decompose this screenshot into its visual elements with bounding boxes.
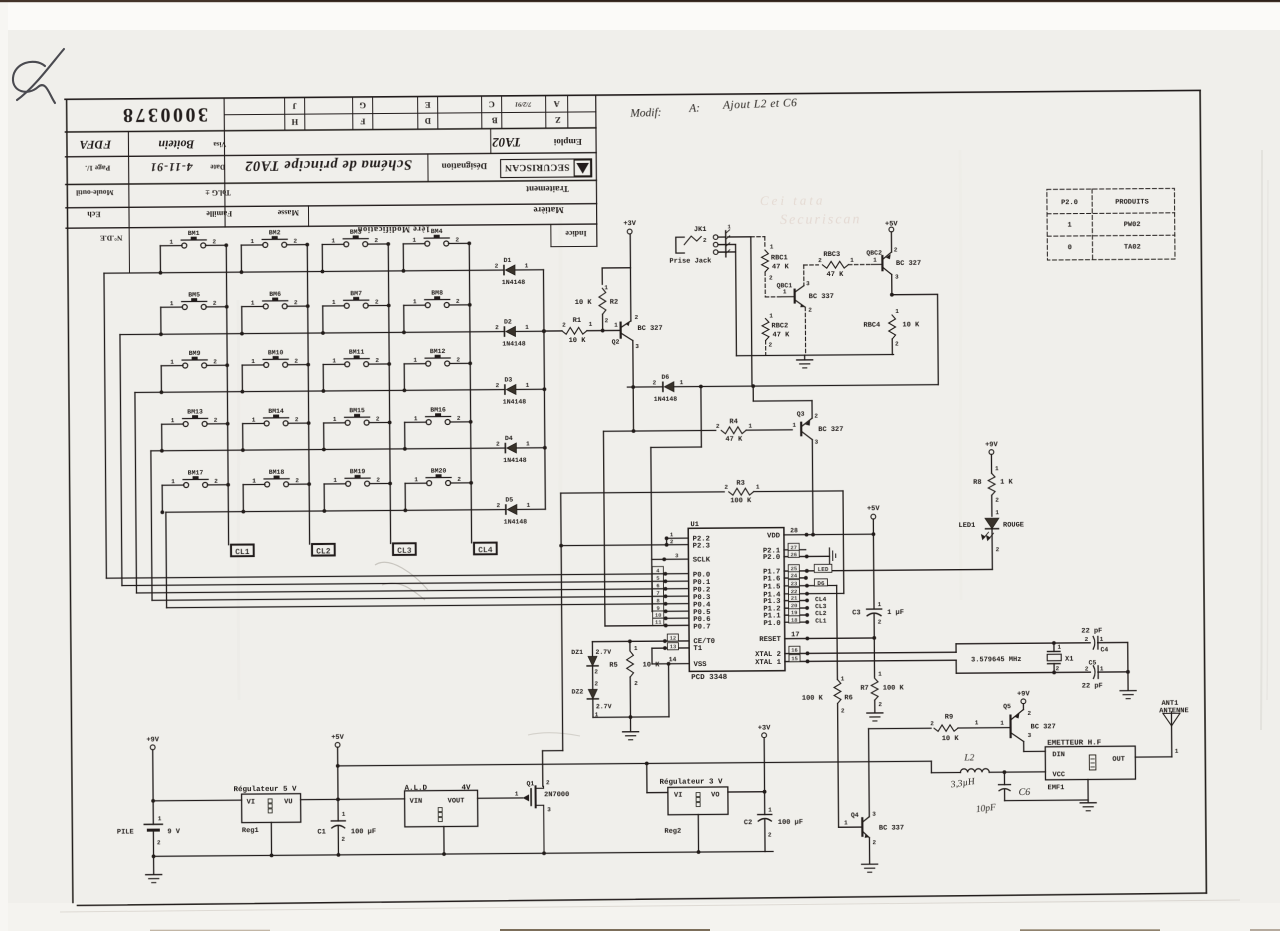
- ground symbol RBC rail: [797, 355, 813, 368]
- wire crystal caps to ground: [1126, 642, 1130, 690]
- svg-text:2N7000: 2N7000: [544, 791, 569, 799]
- svg-text:1: 1: [634, 645, 638, 652]
- svg-text:Z: Z: [555, 115, 561, 125]
- LED1 ROUGE red: [958, 509, 1024, 570]
- svg-text:2: 2: [878, 701, 882, 708]
- node CL4 label: [474, 543, 497, 556]
- svg-text:EMF1: EMF1: [1048, 784, 1065, 792]
- power +5V bottom: [331, 734, 345, 821]
- bottom ground rail: [154, 850, 774, 859]
- emitter block EMETTEUR H.F: [1045, 739, 1135, 792]
- svg-text:1N4148: 1N4148: [503, 398, 527, 405]
- svg-text:R2: R2: [610, 299, 618, 307]
- svg-text:Visa: Visa: [213, 140, 227, 148]
- svg-text:2: 2: [605, 317, 609, 324]
- svg-text:BM13: BM13: [187, 408, 203, 415]
- matrix row rail wire 5: [165, 512, 168, 607]
- wire jack tip dashed to RBC1: [728, 237, 765, 248]
- resistor R5 10K: [609, 641, 660, 717]
- wire ALD VOUT to Q1 gate: [478, 797, 523, 799]
- svg-text:100 K: 100 K: [883, 684, 905, 692]
- wire P2.2/P2.3 tie: [561, 536, 688, 547]
- svg-text:BM19: BM19: [350, 468, 366, 475]
- node label D6: [814, 579, 827, 587]
- svg-text:10: 10: [655, 612, 662, 619]
- svg-text:2: 2: [716, 423, 720, 430]
- svg-text:1: 1: [873, 257, 877, 264]
- svg-text:CL2: CL2: [316, 547, 331, 556]
- wire EMF1 ground leg: [1080, 779, 1096, 810]
- svg-text:3: 3: [1028, 732, 1032, 739]
- svg-text:2: 2: [841, 707, 845, 714]
- svg-text:1: 1: [331, 237, 335, 244]
- svg-text:Emploi: Emploi: [553, 137, 582, 147]
- svg-text:A:: A:: [688, 102, 700, 114]
- svg-text:1: 1: [333, 477, 337, 484]
- svg-text:1: 1: [995, 465, 999, 472]
- svg-text:100 µF: 100 µF: [351, 828, 376, 836]
- svg-text:2: 2: [814, 413, 818, 420]
- switch BM1: [158, 230, 228, 275]
- svg-text:3: 3: [547, 806, 551, 813]
- node CL3 label: [393, 543, 416, 556]
- svg-text:E: E: [424, 100, 430, 110]
- svg-text:VOUT: VOUT: [448, 797, 465, 805]
- svg-text:+3V: +3V: [623, 220, 636, 228]
- svg-text:2: 2: [341, 836, 345, 843]
- svg-text:P2.3: P2.3: [693, 542, 710, 550]
- svg-text:6: 6: [656, 582, 659, 589]
- svg-text:1: 1: [1068, 222, 1072, 230]
- svg-text:1: 1: [1000, 720, 1004, 727]
- resistor R7 100K: [860, 638, 905, 713]
- svg-text:11: 11: [655, 619, 662, 626]
- wire Q5 collector to DIN: [1024, 741, 1046, 751]
- svg-text:1: 1: [841, 675, 845, 682]
- svg-text:10 K: 10 K: [575, 299, 593, 307]
- svg-text:1: 1: [604, 284, 608, 291]
- zener DZ1 2.7V: [571, 642, 611, 690]
- svg-text:1: 1: [792, 422, 796, 429]
- svg-text:CL1: CL1: [235, 548, 250, 557]
- svg-text:+9V: +9V: [985, 441, 998, 449]
- svg-text:1: 1: [783, 288, 787, 295]
- svg-text:+9V: +9V: [146, 736, 159, 744]
- scanner top edge line: [0, 0, 1280, 2]
- svg-text:B: B: [492, 116, 498, 126]
- U1 pin XTAL2 stub: [785, 645, 956, 655]
- svg-text:7: 7: [656, 590, 659, 597]
- svg-text:2: 2: [157, 839, 161, 846]
- svg-text:1: 1: [252, 417, 256, 424]
- svg-text:Date: Date: [210, 163, 226, 172]
- battery PILE 9V: [117, 815, 181, 857]
- wire Q4 collector up to R9: [869, 728, 932, 816]
- capacitor C5 22pF: [1082, 659, 1104, 690]
- switch BM6: [240, 291, 310, 336]
- ground rail under U1: [593, 715, 669, 732]
- svg-text:2: 2: [670, 538, 673, 545]
- resistor R6 100K: [801, 585, 854, 827]
- svg-text:Reg1: Reg1: [242, 827, 259, 835]
- svg-text:LED: LED: [818, 566, 829, 573]
- svg-text:18: 18: [791, 617, 798, 624]
- svg-text:TA02: TA02: [1124, 243, 1141, 251]
- svg-text:47 K: 47 K: [826, 271, 844, 279]
- svg-text:D3: D3: [504, 377, 512, 384]
- U1 left pin numbers: [652, 531, 680, 663]
- svg-text:DIN: DIN: [1052, 751, 1065, 759]
- wire Reg2 VO to +3V node: [728, 790, 767, 794]
- svg-text:100 µF: 100 µF: [778, 819, 803, 827]
- wire Q4 emitter to ground: [861, 838, 877, 873]
- svg-text:2: 2: [724, 484, 728, 491]
- svg-text:1: 1: [844, 819, 848, 826]
- row bus wire row 1: [104, 270, 504, 273]
- svg-text:Q2: Q2: [612, 339, 620, 346]
- switch BM4: [401, 228, 471, 273]
- svg-text:2: 2: [894, 246, 898, 253]
- svg-text:VU: VU: [284, 798, 292, 806]
- +5V rail to right: [338, 759, 932, 777]
- svg-text:2: 2: [457, 476, 461, 483]
- svg-text:Désignation: Désignation: [442, 161, 488, 171]
- svg-text:RBC1: RBC1: [771, 254, 788, 262]
- svg-text:BC 327: BC 327: [896, 260, 921, 268]
- transistor Q3 BC327: [792, 410, 843, 445]
- svg-text:+5V: +5V: [331, 734, 344, 742]
- dashed table P2.0 PRODUITS: [1047, 188, 1175, 260]
- svg-text:BM4: BM4: [431, 228, 443, 235]
- wire +5V rail to Reg2 VI: [647, 763, 668, 792]
- svg-text:2: 2: [496, 382, 500, 389]
- svg-text:1: 1: [252, 478, 256, 485]
- svg-text:D5: D5: [505, 496, 513, 503]
- svg-text:1: 1: [414, 415, 418, 422]
- svg-text:BM7: BM7: [350, 290, 362, 297]
- power +9V for Q5: [1017, 690, 1031, 709]
- svg-text:Traitement: Traitement: [526, 184, 569, 194]
- svg-text:C: C: [489, 100, 495, 110]
- svg-text:CL4: CL4: [815, 596, 827, 603]
- row bus wire row 3: [135, 390, 505, 393]
- wire R4 to P0.7: [603, 431, 605, 626]
- svg-text:23: 23: [791, 580, 798, 587]
- wire VSS to ground rail: [668, 664, 670, 717]
- svg-text:1: 1: [756, 484, 760, 491]
- svg-text:BC 327: BC 327: [818, 426, 843, 434]
- title block table lines: [65, 95, 597, 273]
- svg-text:Ajout L2 et C6: Ajout L2 et C6: [722, 97, 798, 112]
- svg-text:H: H: [291, 117, 298, 127]
- svg-text:D: D: [425, 116, 431, 126]
- svg-text:D1: D1: [503, 257, 511, 264]
- diode D5 1N4148: [496, 496, 530, 525]
- svg-text:CL4: CL4: [478, 546, 493, 555]
- transistor Q4 BC337: [838, 810, 904, 846]
- svg-text:2: 2: [375, 357, 379, 364]
- switch BM19: [322, 468, 392, 513]
- svg-text:2: 2: [456, 356, 460, 363]
- svg-text:VI: VI: [247, 799, 255, 807]
- svg-text:3: 3: [635, 343, 639, 350]
- diode D2 1N4148: [495, 318, 529, 347]
- antenna ANT1 ANTENNE: [1159, 700, 1189, 726]
- svg-text:1: 1: [169, 239, 173, 246]
- resistor R8 1K: [973, 465, 1014, 516]
- svg-text:D6: D6: [661, 374, 669, 381]
- svg-text:A.L.D: A.L.D: [405, 785, 428, 793]
- svg-text:2: 2: [496, 502, 500, 509]
- svg-text:2: 2: [769, 341, 773, 348]
- svg-text:G: G: [359, 101, 366, 111]
- svg-text:1ère Modification: 1ère Modification: [357, 225, 430, 236]
- svg-text:2: 2: [818, 257, 822, 264]
- svg-text:Moule-outil: Moule-outil: [76, 188, 114, 197]
- svg-text:2: 2: [1027, 710, 1031, 717]
- svg-text:1: 1: [768, 806, 772, 813]
- svg-text:QBC2: QBC2: [866, 250, 882, 257]
- svg-text:R5: R5: [609, 662, 617, 670]
- transistor QBC1 BC337: [765, 280, 834, 314]
- svg-text:2: 2: [295, 477, 299, 484]
- svg-text:2: 2: [768, 831, 772, 838]
- wire XTAL2 to crystal top rail: [956, 642, 1128, 652]
- svg-text:2: 2: [546, 779, 550, 786]
- svg-text:N°.D.E: N°.D.E: [100, 234, 123, 243]
- zener DZ2 2.7V: [572, 688, 612, 718]
- wire CE/T0 node: [592, 639, 631, 643]
- U1 pin P1.5 stub to R6: [784, 579, 836, 588]
- svg-text:1: 1: [995, 509, 999, 516]
- svg-text:2: 2: [294, 358, 298, 365]
- svg-text:R6: R6: [844, 694, 852, 702]
- svg-text:2: 2: [594, 668, 598, 675]
- svg-text:2: 2: [495, 324, 499, 331]
- svg-text:PW02: PW02: [1124, 221, 1141, 229]
- svg-text:2: 2: [562, 322, 566, 329]
- resistor R1 10K: [542, 317, 620, 346]
- wire ALD ground leg: [443, 827, 445, 854]
- svg-text:22 pF: 22 pF: [1081, 627, 1102, 635]
- svg-text:BM1: BM1: [188, 230, 200, 237]
- svg-text:R7: R7: [860, 685, 868, 693]
- wire Q1 drain up: [542, 785, 545, 787]
- svg-text:1: 1: [413, 298, 417, 305]
- svg-text:3: 3: [806, 280, 810, 287]
- svg-text:Cei tata: Cei tata: [760, 193, 826, 209]
- svg-text:1: 1: [680, 379, 684, 386]
- svg-text:1: 1: [251, 300, 255, 307]
- svg-text:2: 2: [878, 619, 882, 626]
- svg-text:13: 13: [670, 643, 677, 650]
- wire Reg1 ground leg: [270, 822, 272, 855]
- svg-text:1: 1: [250, 238, 254, 245]
- column wire CL4: [469, 243, 471, 542]
- wire XTAL1 to crystal bottom rail: [956, 659, 1128, 673]
- wire Reg1 VU to +5V node: [301, 797, 405, 802]
- svg-text:100 K: 100 K: [730, 497, 752, 505]
- svg-text:2: 2: [995, 497, 999, 504]
- svg-text:Modif:: Modif:: [629, 107, 662, 120]
- svg-text:C5: C5: [1089, 659, 1097, 666]
- svg-text:PCD 3348: PCD 3348: [691, 673, 728, 682]
- svg-text:1: 1: [878, 601, 882, 608]
- svg-text:VO: VO: [711, 791, 719, 799]
- svg-text:24: 24: [791, 572, 798, 579]
- row bus wire row 5: [166, 510, 506, 513]
- faint scan streaks: [238, 150, 1268, 730]
- capacitor C6 10pF: [998, 771, 1088, 800]
- svg-text:Q3: Q3: [797, 411, 805, 418]
- svg-text:2: 2: [295, 416, 299, 423]
- svg-text:1 K: 1 K: [1000, 479, 1013, 487]
- svg-text:2: 2: [635, 314, 639, 321]
- svg-text:Boitein: Boitein: [158, 137, 195, 151]
- column wire CL3: [388, 244, 390, 543]
- svg-text:SCLK: SCLK: [693, 556, 711, 564]
- svg-text:BC 327: BC 327: [1031, 723, 1056, 731]
- svg-text:TA02: TA02: [492, 135, 522, 150]
- svg-text:2: 2: [213, 300, 217, 307]
- svg-text:VSS: VSS: [694, 661, 708, 669]
- svg-text:2: 2: [1085, 636, 1089, 643]
- svg-text:10 K: 10 K: [942, 735, 960, 743]
- U1 right pin stubs VDD: [784, 527, 875, 537]
- wire jack tip down to keyboard line: [751, 237, 752, 386]
- svg-text:17: 17: [791, 631, 799, 639]
- svg-text:26: 26: [790, 551, 797, 558]
- svg-text:2: 2: [214, 417, 218, 424]
- svg-text:2: 2: [374, 237, 378, 244]
- inductor L2 3.3uH: [931, 753, 1045, 775]
- svg-text:F: F: [360, 117, 365, 127]
- svg-text:1: 1: [526, 502, 530, 509]
- svg-text:1: 1: [526, 440, 530, 447]
- svg-text:P0.7: P0.7: [693, 623, 710, 631]
- transistor Q5 BC327: [1000, 703, 1056, 742]
- svg-text:1: 1: [975, 719, 979, 726]
- svg-text:P1.5: P1.5: [763, 583, 780, 591]
- svg-text:1: 1: [171, 478, 175, 485]
- svg-text:BM11: BM11: [349, 349, 365, 356]
- svg-text:OUT: OUT: [1112, 756, 1125, 764]
- svg-text:2: 2: [1085, 665, 1089, 672]
- svg-text:2: 2: [457, 415, 461, 422]
- wire Q2 collector to D6: [632, 341, 634, 387]
- svg-text:1N4148: 1N4148: [504, 518, 528, 525]
- svg-text:2: 2: [872, 839, 876, 846]
- svg-text:1N4148: 1N4148: [502, 340, 526, 347]
- svg-text:D2: D2: [504, 319, 512, 326]
- matrix row rail wire 3: [135, 392, 137, 592]
- svg-text:2.7V: 2.7V: [595, 649, 611, 656]
- svg-text:BM16: BM16: [430, 407, 446, 414]
- svg-text:ROUGE: ROUGE: [1003, 521, 1024, 529]
- switch BM12: [402, 348, 472, 392]
- svg-text:Indice: Indice: [565, 229, 587, 238]
- svg-text:1: 1: [769, 312, 773, 319]
- svg-text:Régulateur 5 V: Régulateur 5 V: [234, 785, 298, 794]
- wire battery to Reg1 VI: [153, 799, 241, 802]
- svg-text:2: 2: [703, 237, 707, 244]
- svg-text:RBC4: RBC4: [863, 322, 880, 330]
- wire D6 branch to Q3 emitter: [753, 386, 812, 419]
- svg-text:1: 1: [515, 790, 519, 797]
- svg-text:DZ1: DZ1: [571, 649, 583, 656]
- svg-text:+9V: +9V: [1017, 690, 1030, 698]
- ground symbol R7: [867, 712, 883, 714]
- svg-text:BM14: BM14: [268, 408, 284, 415]
- wire Reg2 ground leg: [697, 815, 699, 852]
- svg-text:1: 1: [170, 359, 174, 366]
- switch BM5: [159, 291, 229, 336]
- svg-text:VI: VI: [674, 792, 682, 800]
- revision letter grid: [224, 95, 596, 131]
- svg-text:16: 16: [791, 647, 798, 654]
- svg-text:Régulateur 3 V: Régulateur 3 V: [659, 777, 723, 786]
- transistor Q1 2N7000 mosfet: [515, 779, 570, 853]
- capacitor C2 100uF: [744, 806, 804, 851]
- svg-text:BM17: BM17: [188, 469, 204, 476]
- svg-text:1: 1: [412, 237, 416, 244]
- svg-text:Matière: Matière: [533, 205, 563, 215]
- svg-text:1: 1: [1175, 748, 1179, 755]
- svg-text:2: 2: [653, 379, 657, 386]
- svg-text:1: 1: [332, 357, 336, 364]
- svg-text:LED1: LED1: [958, 522, 975, 530]
- switch BM10: [240, 349, 310, 393]
- switch BM18: [241, 469, 311, 514]
- svg-text:2: 2: [213, 358, 217, 365]
- svg-text:3: 3: [895, 273, 899, 280]
- svg-text:2: 2: [294, 299, 298, 306]
- svg-text:14: 14: [669, 656, 677, 663]
- svg-text:R4: R4: [729, 418, 737, 426]
- node label LED: [814, 564, 832, 573]
- svg-text:1N4148: 1N4148: [502, 279, 526, 286]
- svg-text:CL3: CL3: [397, 547, 412, 556]
- resistor R3 100K: [561, 479, 843, 507]
- diode D1 1N4148: [495, 257, 529, 286]
- svg-text:2: 2: [996, 546, 1000, 553]
- svg-text:1: 1: [614, 322, 618, 329]
- svg-text:A: A: [553, 99, 560, 109]
- svg-text:1: 1: [589, 321, 593, 328]
- svg-text:2: 2: [930, 720, 934, 727]
- svg-text:2: 2: [456, 298, 460, 305]
- svg-text:3: 3: [872, 811, 876, 818]
- power +5V mid: [867, 505, 881, 609]
- wire R3 to P2.2/P2.3 and Q1 drain: [541, 493, 565, 786]
- svg-text:FDFA: FDFA: [80, 138, 113, 152]
- svg-text:1: 1: [525, 262, 529, 269]
- svg-text:L2: L2: [963, 753, 974, 763]
- svg-text:1: 1: [895, 308, 899, 315]
- svg-text:3000378: 3000378: [120, 103, 208, 126]
- wire jack ring to RBC ground rail: [718, 243, 894, 356]
- wire D6 node across to RBC network: [699, 383, 938, 389]
- A.L.D regulator box: [405, 784, 478, 827]
- svg-text:XTAL 1: XTAL 1: [755, 659, 782, 667]
- svg-text:XTAL 2: XTAL 2: [755, 651, 781, 659]
- power +3V bottom: [758, 724, 772, 814]
- svg-text:BM20: BM20: [431, 468, 447, 475]
- svg-text:PILE: PILE: [117, 828, 134, 836]
- switch BM9: [159, 350, 229, 394]
- svg-text:1: 1: [770, 243, 774, 250]
- svg-text:28: 28: [790, 527, 798, 534]
